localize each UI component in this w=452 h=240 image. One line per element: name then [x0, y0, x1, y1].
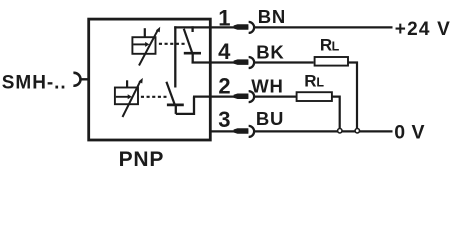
RL2 drop wire	[331, 97, 339, 128]
connector pin 2	[234, 93, 249, 99]
svg-text:BU: BU	[256, 108, 284, 129]
wire pin4 BK	[192, 61, 249, 63]
sensor element 1 box	[132, 37, 155, 54]
svg-text:WH: WH	[251, 76, 283, 97]
sensor housing box	[89, 19, 211, 140]
wire color WH	[251, 76, 283, 97]
sensor element 1 actuation arrow	[139, 30, 158, 65]
svg-text:L: L	[332, 40, 340, 54]
wire pin1 BN	[174, 26, 248, 28]
sensor element 2 top stub	[126, 80, 128, 87]
contact 2 movable arm	[166, 82, 174, 105]
sensor element 2 box	[115, 88, 138, 105]
connector pin 4	[234, 59, 249, 65]
dashed link sensor 2 to contact 2	[141, 96, 167, 98]
svg-text:R: R	[320, 36, 332, 55]
connector pin 1	[234, 24, 249, 30]
svg-text:4: 4	[218, 39, 231, 64]
wire pin2 WH	[193, 95, 248, 97]
junction terminal circle BK load	[355, 129, 359, 133]
contact 1 fixed stub	[191, 26, 193, 32]
load resistor RL on BK	[315, 57, 348, 66]
sensor element 1 inner arrow	[133, 43, 145, 45]
load resistor RL on WH	[297, 92, 332, 101]
wire pin3 BU / 0V rail	[210, 130, 248, 132]
plug socket arc at SMH lead	[73, 73, 80, 86]
pin number 4	[218, 39, 231, 64]
RL1 drop wire	[348, 63, 357, 129]
pin number 1	[218, 6, 230, 31]
contact 2 output jog	[176, 97, 194, 114]
svg-text:0 V: 0 V	[394, 122, 425, 144]
svg-text:1: 1	[218, 6, 230, 31]
svg-text:2: 2	[218, 74, 230, 99]
label 0 V	[394, 122, 425, 144]
pin number 3	[218, 107, 230, 132]
svg-text:+24 V: +24 V	[395, 19, 451, 40]
junction terminal circle WH load	[338, 129, 342, 133]
svg-text:3: 3	[218, 107, 230, 132]
wire color BK	[256, 41, 284, 62]
sensor element 2 inner arrow	[116, 96, 128, 98]
svg-text:L: L	[316, 75, 324, 89]
svg-text:PNP: PNP	[119, 148, 165, 171]
contact 1 lower stub	[192, 53, 194, 62]
label +24 V	[395, 19, 451, 40]
svg-text:BN: BN	[258, 6, 286, 27]
wire from socket to housing	[81, 78, 89, 80]
contact 2 bar	[167, 104, 184, 107]
connector pin 3	[234, 128, 249, 134]
svg-text:R: R	[304, 71, 316, 90]
svg-text:BK: BK	[256, 41, 284, 62]
label PNP	[119, 148, 165, 171]
contact 2 lower stub	[175, 105, 177, 114]
pin number 2	[218, 74, 230, 99]
dashed link sensor 1 to contact 1	[159, 43, 185, 45]
contact 1 bar	[184, 52, 201, 55]
label SMH-..	[2, 73, 67, 94]
wire color BU	[256, 108, 284, 129]
sensor element 2 actuation arrow	[123, 81, 141, 117]
svg-text:SMH-..: SMH-..	[2, 73, 67, 94]
supply riser to contact 2	[174, 26, 176, 87]
contact 1 movable arm	[184, 29, 193, 53]
sensor element 1 top stub	[144, 28, 146, 37]
wire color BN	[258, 6, 286, 27]
